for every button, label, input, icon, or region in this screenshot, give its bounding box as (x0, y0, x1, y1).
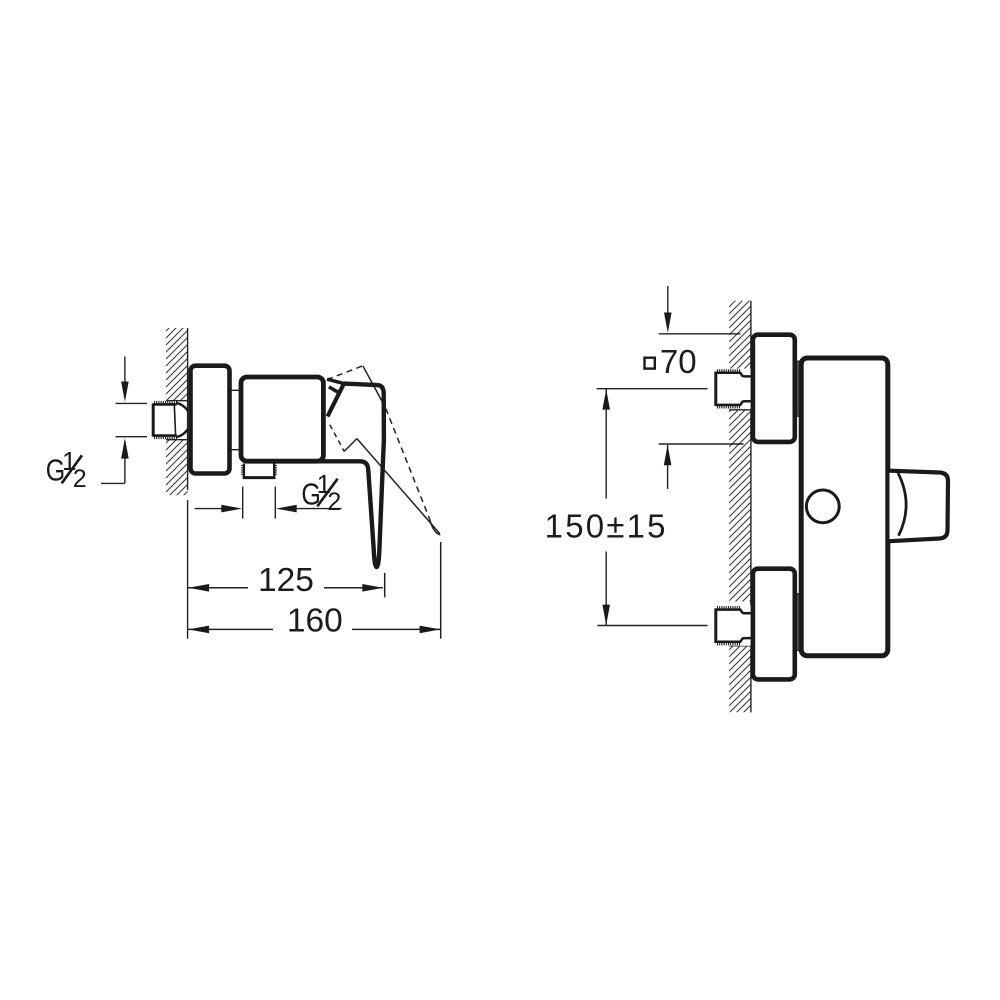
svg-text:70: 70 (660, 343, 697, 380)
svg-text:160: 160 (287, 603, 343, 640)
svg-text:2: 2 (327, 488, 341, 516)
svg-text:150±15: 150±15 (545, 508, 668, 545)
svg-text:125: 125 (258, 562, 314, 599)
svg-text:2: 2 (73, 465, 87, 493)
